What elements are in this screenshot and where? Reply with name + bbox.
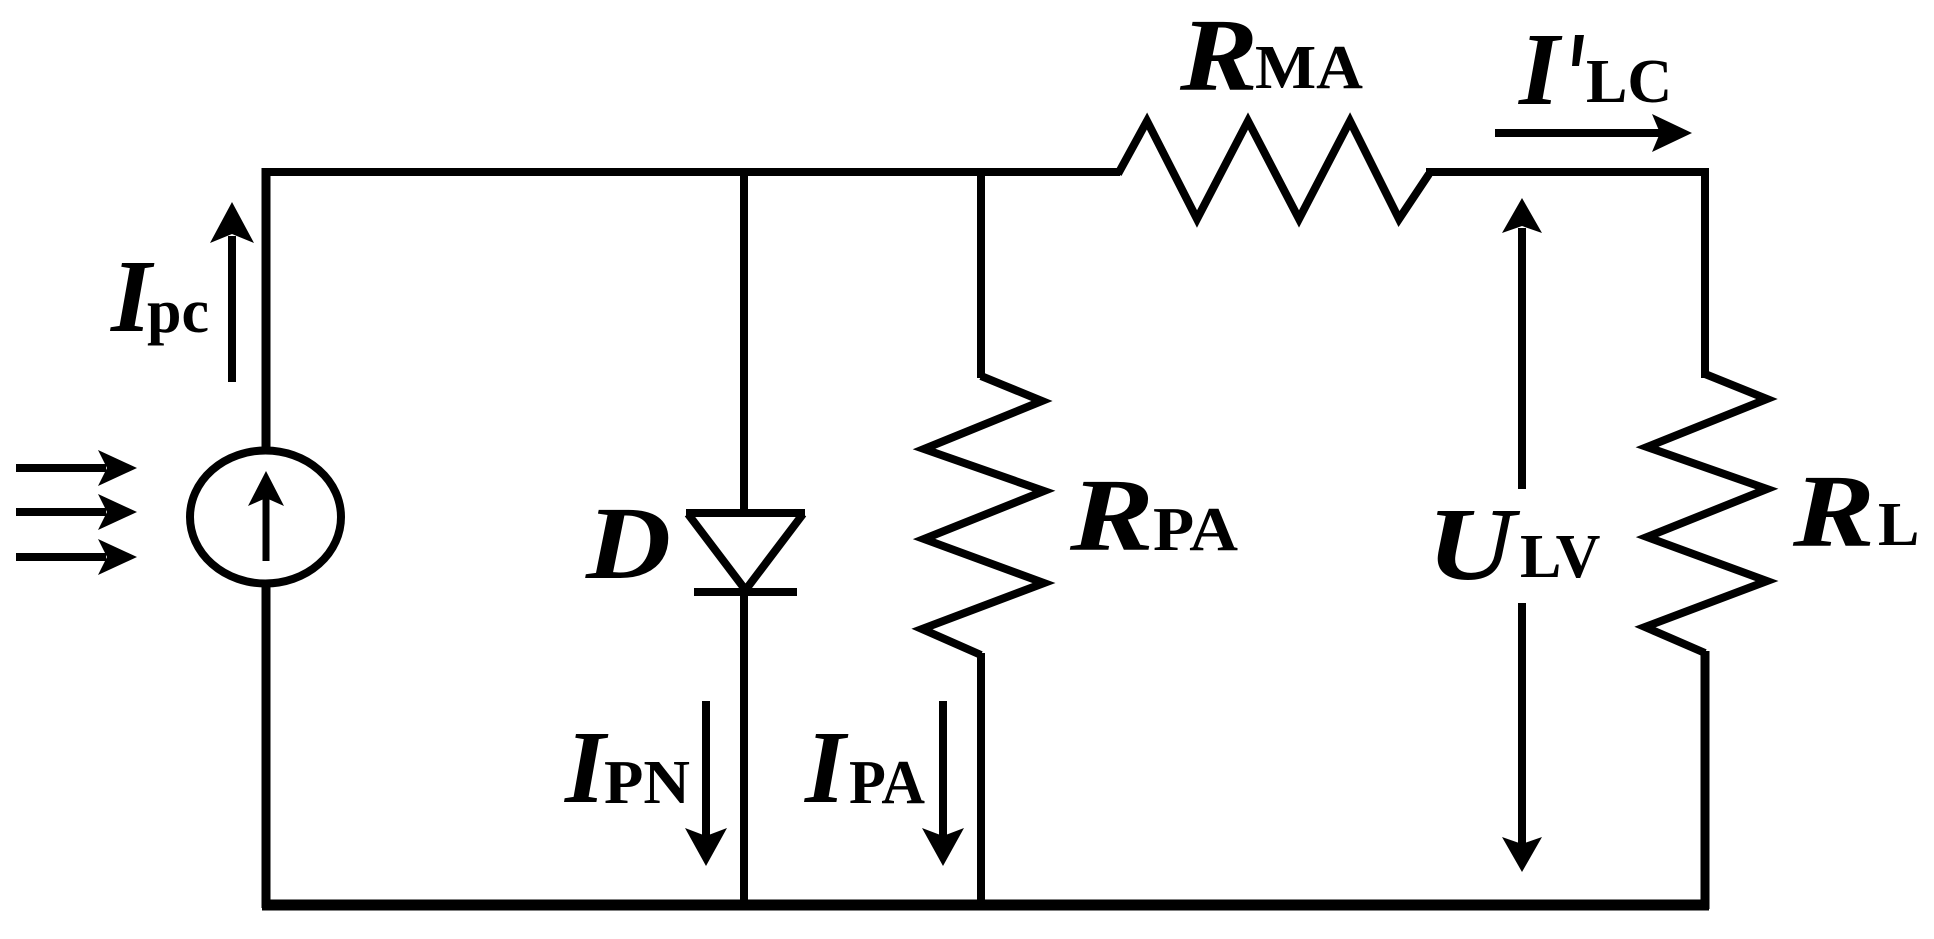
svg-text:R: R [1792,454,1875,569]
svg-text:PN: PN [604,749,690,817]
svg-text:L: L [1878,491,1919,559]
svg-text:D: D [585,486,671,601]
svg-text:I: I [563,710,609,825]
wire R_PA branch (top) [977,168,985,378]
diode D triangle [686,509,805,517]
current source circle [190,451,341,584]
current source inner arrow [248,471,284,561]
arrow I_PN [685,701,727,866]
svg-text:LV: LV [1520,523,1601,591]
wire R_PA branch (bottom) [977,653,985,904]
svg-text:PA: PA [1153,496,1238,564]
wire left vertical (below source) [262,585,271,908]
wire top right segment with corner [1426,172,1705,378]
resistor R_MA zigzag [1118,121,1429,219]
svg-text:I: I [1517,12,1563,127]
resistor R_L zigzag [1645,374,1767,653]
svg-text:MA: MA [1255,34,1363,102]
svg-text:pc: pc [147,278,209,346]
wire diode branch (bottom) [740,592,748,904]
arrow I_pc [210,202,254,382]
arrow I'_LC [1495,114,1692,152]
illumination arrow 1 [16,450,137,486]
prime of I'_LC [1572,35,1584,66]
wire top left segment [262,168,1120,176]
wire bottom [262,900,1709,911]
wire left vertical (top) [262,168,271,450]
arrow I_PA [922,701,964,866]
svg-text:LC: LC [1586,48,1672,116]
svg-text:I: I [803,710,849,825]
arrow U_LV (double headed) [1502,198,1542,872]
svg-text:PA: PA [849,749,925,817]
diode D cathode bar [694,588,797,596]
svg-text:U: U [1427,487,1521,602]
resistor R_PA zigzag [922,376,1044,655]
illumination arrow 3 [16,539,137,575]
illumination arrow 2 [16,494,137,530]
wire R_L bottom lead [1701,651,1710,909]
wire diode branch (top) [740,168,748,515]
svg-text:R: R [1069,458,1154,573]
svg-text:R: R [1179,0,1258,113]
